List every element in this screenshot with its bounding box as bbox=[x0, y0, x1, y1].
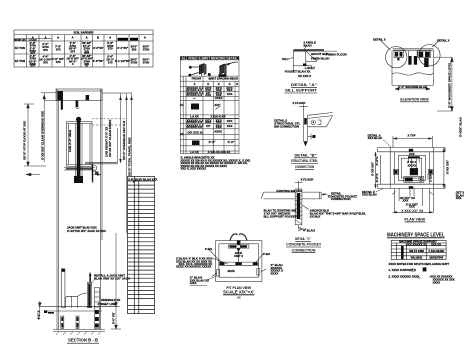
pit leader note bbox=[91, 273, 131, 284]
svg-text:XXX: XXX bbox=[456, 196, 462, 200]
svg-text:DETAIL X: DETAIL X bbox=[373, 37, 386, 41]
plan view title bbox=[404, 218, 425, 222]
svg-text:X TYP: X TYP bbox=[407, 133, 415, 137]
data row smudges (lower) bbox=[180, 103, 233, 136]
svg-text:CONNECTION: CONNECTION bbox=[331, 197, 350, 201]
plan bottom dims text bbox=[400, 196, 425, 213]
svg-text:XXX: XXX bbox=[409, 152, 415, 156]
pit floor bbox=[53, 329, 105, 331]
overhead cap beam bbox=[56, 89, 102, 101]
center vertical line bbox=[238, 248, 240, 262]
detail A annotations bbox=[282, 41, 348, 79]
svg-text:CONNECTION: CONNECTION bbox=[292, 248, 316, 252]
svg-text:CONNECTION: CONNECTION bbox=[295, 165, 314, 169]
svg-text:P-BO: P-BO bbox=[205, 247, 213, 251]
svg-text:X'-XXX" BLAH: X'-XXX" BLAH bbox=[459, 117, 463, 137]
svg-text:UNIT 2: UNIT 2 bbox=[234, 254, 243, 258]
top dimension bbox=[393, 138, 432, 140]
svg-text:3'-1"30": 3'-1"30" bbox=[117, 46, 128, 50]
svg-text:CONCRETE POCKET: CONCRETE POCKET bbox=[286, 243, 322, 247]
pit buffers and ladder bbox=[61, 288, 100, 329]
svg-text:ELEVATION VIEW: ELEVATION VIEW bbox=[400, 97, 428, 102]
middle buffer beam bbox=[219, 261, 259, 263]
bracket sketch (right) bbox=[219, 62, 238, 77]
diagonal grout wedge bbox=[306, 51, 317, 61]
svg-text:CAB HEIGHT X'-X" XX: CAB HEIGHT X'-X" XX bbox=[105, 127, 109, 157]
left beam bbox=[264, 191, 296, 193]
svg-text:BLL SUPPORT POCKET: BLL SUPPORT POCKET bbox=[264, 214, 297, 218]
column (vertical member) bbox=[302, 115, 304, 141]
pit plan title bbox=[223, 286, 255, 300]
svg-text:A: A bbox=[44, 35, 46, 39]
svg-text:XX'-X" OVERHEAD ABV FLR: XX'-X" OVERHEAD ABV FLR bbox=[122, 120, 126, 160]
svg-text:XX XXX X: XX XXX X bbox=[298, 74, 311, 78]
DETAIL C : concrete pocket connection bbox=[261, 181, 321, 233]
svg-text:5'-0" PIT: 5'-0" PIT bbox=[112, 312, 116, 324]
detail C left note bbox=[264, 209, 297, 219]
anchor leader bbox=[302, 205, 309, 210]
svg-text:/X=XXX X.X: /X=XXX X.X bbox=[187, 125, 203, 129]
svg-text:X'-XX"/XX X/X" JACK XX XXX: X'-XX"/XX X/X" JACK XX XXX bbox=[67, 229, 106, 233]
bottom guides bbox=[217, 270, 220, 277]
svg-text:EXISTING BM XXX: EXISTING BM XXX bbox=[276, 189, 301, 193]
svg-text:X'-X" MACHINERY SPACE LEVEL: X'-X" MACHINERY SPACE LEVEL bbox=[447, 62, 451, 108]
svg-text:PLAN VIEW: PLAN VIEW bbox=[404, 218, 425, 222]
svg-text:A: A bbox=[109, 35, 111, 39]
top tie line from cap to right dims bbox=[102, 93, 132, 233]
data row smudges (upper) bbox=[187, 86, 233, 100]
beam bbox=[308, 113, 333, 116]
bottom angle marks bbox=[305, 66, 312, 69]
svg-text:B: B bbox=[97, 35, 99, 39]
hoistway wall bands bbox=[378, 147, 446, 149]
pit machinery: jack cylinder bbox=[87, 272, 91, 308]
right pit dimension bbox=[111, 233, 121, 329]
soil table data row 2 bbox=[15, 54, 150, 68]
svg-text:3700: 3700 bbox=[143, 47, 150, 51]
svg-text:SOIL BARRIER: SOIL BARRIER bbox=[74, 31, 94, 35]
bottom-most dim line bbox=[393, 211, 434, 213]
svg-text:A: A bbox=[72, 35, 74, 39]
svg-text:4'-0" X: 4'-0" X bbox=[37, 310, 41, 319]
bottom dim bbox=[298, 225, 300, 230]
shaft left wall bbox=[56, 89, 58, 330]
soil parameters table (top-left) bbox=[14, 30, 153, 67]
column header smudges bbox=[192, 76, 238, 86]
svg-text:37: 37 bbox=[85, 64, 89, 68]
svg-text:DETAIL "C": DETAIL "C" bbox=[295, 237, 311, 241]
svg-text:370: 370 bbox=[108, 47, 113, 51]
svg-text:3700: 3700 bbox=[131, 60, 138, 64]
elevation title bbox=[400, 97, 429, 102]
svg-text:XX'-X" ATYP FLOOR HT XXX: XX'-X" ATYP FLOOR HT XXX bbox=[23, 121, 27, 160]
svg-text:XXX X. XXX XXXXX: XXX X. XXX XXXXX bbox=[181, 167, 207, 171]
svg-text:2'-6"30': 2'-6"30' bbox=[93, 46, 103, 50]
svg-text:XXX: XXX bbox=[227, 124, 233, 128]
svg-text:SECTION B - B: SECTION B - B bbox=[68, 338, 98, 343]
svg-text:X'-XX X/X": X'-XX X/X" bbox=[446, 159, 450, 174]
elevation bottom dimension bbox=[395, 88, 430, 91]
svg-text:370: 370 bbox=[108, 61, 113, 65]
svg-text:XXX: XXX bbox=[216, 125, 222, 129]
svg-text:ROW HD: ROW HD bbox=[14, 38, 26, 42]
platform bracket + detail arrow bbox=[91, 164, 102, 183]
svg-text:A: A bbox=[57, 35, 59, 39]
pit plan lower-left note bbox=[190, 276, 217, 286]
svg-text:370: 370 bbox=[70, 49, 75, 53]
SECTION B-B title bbox=[67, 338, 99, 344]
svg-text:BM CONNECTION: BM CONNECTION bbox=[274, 124, 299, 128]
svg-text:X X/X-XX-X/X-XX: X X/X-XX-X/X-XX bbox=[208, 150, 231, 154]
svg-text:XXXX: XXXX bbox=[215, 96, 223, 100]
svg-text:XX BLK: XX BLK bbox=[310, 215, 322, 219]
hatched pocket column bbox=[295, 189, 302, 225]
svg-text:FINISH BLAH: FINISH BLAH bbox=[311, 56, 329, 60]
svg-text:4" BLAH: 4" BLAH bbox=[303, 229, 315, 233]
svg-text:DETAIL "B": DETAIL "B" bbox=[295, 154, 317, 158]
bracket bracing detail table (middle) bbox=[180, 56, 239, 153]
left machine unit bbox=[394, 51, 403, 58]
bottom dim extensions bbox=[393, 188, 395, 212]
body sides bbox=[391, 50, 393, 85]
elevation detail callout circle (left) bbox=[381, 41, 407, 68]
pocket line bbox=[292, 66, 294, 72]
svg-text:DETAIL "A": DETAIL "A" bbox=[291, 83, 317, 87]
svg-text:XXX: XXX bbox=[227, 119, 233, 123]
DETAIL B : structural steel connection bbox=[299, 105, 333, 147]
svg-text:X'-XX X/X" CLEAR OVERHEAD XXX: X'-XX X/X" CLEAR OVERHEAD XXX bbox=[41, 111, 45, 160]
svg-text:XXX: XXX bbox=[227, 92, 233, 96]
machinery note 1 bbox=[389, 267, 427, 272]
svg-text:XXX BLAH: XXX BLAH bbox=[362, 193, 377, 197]
tall row marks bbox=[190, 103, 225, 119]
inner pit wall bbox=[219, 244, 259, 277]
outer pit wall bbox=[216, 241, 262, 282]
ELEVATION VIEW (top right) bbox=[392, 49, 433, 86]
svg-text:XXXX: XXXX bbox=[214, 130, 222, 134]
svg-text:XXX: XXX bbox=[417, 277, 422, 279]
right dim verticals bbox=[443, 148, 445, 189]
svg-text:X XXX'-XX" XX: X XXX'-XX" XX bbox=[401, 209, 424, 213]
svg-text:XXX: XXX bbox=[205, 93, 211, 97]
left pit dimension bbox=[38, 301, 41, 319]
svg-text:A: A bbox=[86, 35, 88, 39]
svg-text:XXX XX: XXX XX bbox=[431, 242, 441, 246]
svg-text:XX: XX bbox=[180, 132, 184, 136]
right rail bracket bbox=[428, 169, 433, 174]
svg-text:XX: XX bbox=[237, 296, 241, 300]
svg-text:POCKET BLAH XX: POCKET BLAH XX bbox=[285, 69, 311, 73]
svg-text:BLAH: BLAH bbox=[304, 43, 312, 47]
svg-text:CAB X'-X" HIGH: CAB X'-X" HIGH bbox=[68, 130, 72, 152]
svg-text:ALL FIXED & BRKT BRACING DETAI: ALL FIXED & BRKT BRACING DETAIL bbox=[182, 57, 238, 61]
svg-text:370: 370 bbox=[43, 61, 48, 65]
detail B left note bbox=[274, 119, 300, 129]
bolt below bbox=[308, 136, 314, 138]
left leader bbox=[288, 58, 293, 60]
svg-text:XX'-X" TOTAL TRAVEL RISE: XX'-X" TOTAL TRAVEL RISE bbox=[128, 137, 132, 176]
pit plan right note bbox=[271, 263, 283, 275]
plan bottom-left label bbox=[362, 189, 383, 197]
svg-text:FINISH FLOOR: FINISH FLOOR bbox=[326, 53, 347, 57]
street line bbox=[39, 306, 120, 311]
svg-text:X FLOOR: X FLOOR bbox=[293, 101, 307, 105]
center unit (hanging motor, U shape) bbox=[408, 56, 411, 65]
svg-text:3'-6"30": 3'-6"30" bbox=[93, 59, 104, 63]
machinery space table bbox=[391, 240, 446, 259]
clear-inside extension line bbox=[116, 128, 118, 162]
PLAN VIEW (right) bbox=[374, 136, 445, 214]
svg-text:370: 370 bbox=[30, 64, 35, 68]
plan bottom-right rotated label bbox=[456, 191, 465, 201]
svg-text:3700: 3700 bbox=[143, 60, 150, 64]
detail C callout note (far right) bbox=[322, 192, 357, 202]
svg-text:XX: XX bbox=[180, 103, 184, 107]
svg-text:XXX XX/XXX XX: XXX XX/XXX XX bbox=[406, 242, 427, 246]
svg-text:XXXX: XXXX bbox=[433, 280, 441, 284]
floor levels ladder table bbox=[128, 176, 155, 313]
right dimension arrowheads bbox=[119, 96, 133, 163]
svg-text:3/8,16/32: 3/8,16/32 bbox=[411, 256, 423, 260]
platform sill band extending right bbox=[85, 162, 118, 164]
svg-text:(XX XXX X): (XX XXX X) bbox=[188, 130, 203, 134]
svg-text:XXXX NOTES FOR SPLITS REPLACIN: XXXX NOTES FOR SPLITS REPLACING SUPT bbox=[389, 262, 450, 266]
pit machinery: power unit tank bbox=[66, 293, 88, 308]
svg-text:DETAIL X: DETAIL X bbox=[437, 39, 450, 43]
svg-text:REAR: REAR bbox=[230, 76, 238, 80]
center jack cluster bbox=[410, 168, 418, 175]
jack unit note text (mid shaft) bbox=[67, 226, 106, 234]
bottom slab bbox=[392, 84, 433, 86]
cylinder arc above (double dome) bbox=[230, 234, 238, 241]
svg-text:X/XX: X/XX bbox=[190, 281, 197, 285]
svg-text:370: 370 bbox=[43, 48, 48, 52]
svg-text:X/X": X/X" bbox=[214, 103, 221, 107]
svg-text:SILL: SILL bbox=[282, 57, 288, 61]
PIT PLAN VIEW bbox=[209, 234, 266, 282]
svg-text:16/32/7600: 16/32/7600 bbox=[429, 256, 443, 260]
pit machinery: plunger guide column bbox=[62, 269, 65, 308]
right beam bbox=[302, 192, 321, 199]
leader diagonals bbox=[209, 250, 221, 263]
svg-text:X'-X" MACHINE BLAH: X'-X" MACHINE BLAH bbox=[398, 85, 427, 89]
machine room shelf top line bbox=[393, 48, 434, 50]
svg-text:7-1/8,1/8,M0: 7-1/8,1/8,M0 bbox=[428, 249, 444, 253]
svg-text:X FL ELEV BLAH XXX: X FL ELEV BLAH XXX bbox=[128, 177, 157, 181]
svg-text:370: 370 bbox=[56, 47, 61, 51]
svg-text:300: 300 bbox=[132, 47, 137, 51]
dashed datum lines right of cab bbox=[92, 119, 127, 125]
plan top-left label bbox=[368, 133, 391, 147]
svg-text:XX': XX' bbox=[206, 124, 211, 128]
plan inside small texts bbox=[407, 152, 416, 167]
svg-text:X'-X": X'-X" bbox=[228, 140, 236, 144]
svg-text:A: A bbox=[144, 35, 146, 39]
svg-text:JACK: JACK bbox=[227, 269, 235, 273]
soil table data row 1 bbox=[15, 41, 150, 55]
svg-text:3'-1 1/2"30": 3'-1 1/2"30" bbox=[115, 59, 131, 63]
detail C right note bbox=[310, 209, 366, 219]
svg-text:SCALE X/X"=X': SCALE X/X"=X' bbox=[223, 290, 254, 295]
svg-text:X'-X"X: X'-X"X bbox=[375, 174, 379, 183]
pit plan left note block bbox=[176, 257, 212, 269]
leader to 2-angle note bbox=[303, 45, 307, 51]
cab / car enclosure bbox=[64, 122, 95, 171]
shaft right wall bbox=[100, 89, 102, 330]
svg-text:X'-X": X'-X" bbox=[209, 140, 217, 144]
center top tick bbox=[409, 149, 413, 152]
elevation detail callout circle (right) bbox=[419, 42, 440, 66]
finish floor line bbox=[293, 49, 324, 51]
top buffer channel bbox=[229, 245, 249, 248]
bracket sketch (left) bbox=[189, 64, 211, 77]
center channel verticals bbox=[411, 159, 413, 176]
svg-text:—: — bbox=[193, 96, 196, 100]
sidewalk arrow blob bbox=[44, 310, 47, 313]
svg-text:5/8,73 1/8M: 5/8,73 1/8M bbox=[409, 249, 424, 253]
svg-text:SILL SUPPORT: SILL SUPPORT bbox=[285, 89, 318, 93]
svg-text:FRONT: FRONT bbox=[192, 76, 202, 80]
floor tick bbox=[298, 181, 300, 192]
corner leader ticks bbox=[392, 191, 395, 194]
svg-text:370: 370 bbox=[56, 60, 61, 64]
machinery note 2 bbox=[389, 274, 455, 284]
svg-text:XXX BLAH: XXX BLAH bbox=[368, 136, 383, 140]
wavy break line bbox=[392, 73, 433, 75]
floor tick above bbox=[302, 105, 304, 116]
SECTION B-B : hoistway section (left) bbox=[53, 89, 105, 335]
svg-text:XXXX: XXXX bbox=[271, 271, 279, 275]
left dimension line (near) bbox=[26, 93, 57, 176]
inner boxes bbox=[394, 152, 429, 184]
hydraulic piston bbox=[74, 117, 83, 183]
svg-text:STRUCTURAL STEEL: STRUCTURAL STEEL bbox=[291, 159, 318, 163]
right machine unit bbox=[418, 51, 431, 58]
svg-text:BLAH UNIT XX X/X" JACK: BLAH UNIT XX X/X" JACK bbox=[94, 276, 131, 280]
svg-text:P-BO: P-BO bbox=[263, 252, 271, 256]
left rail bracket bbox=[393, 169, 398, 174]
svg-text:BRKT SPACING: BRKT SPACING bbox=[208, 76, 229, 80]
svg-text:370: 370 bbox=[84, 49, 89, 53]
machinery table texts bbox=[399, 240, 444, 260]
detail B title bbox=[291, 154, 319, 170]
notes below bracket table bbox=[181, 156, 251, 171]
svg-text:2. XXXX XXXXXX XXXX: 2. XXXX XXXXXX XXXX bbox=[389, 274, 420, 278]
pit plan labels inside bbox=[227, 251, 243, 273]
MACHINERY SPACE LEVEL title bbox=[387, 232, 445, 238]
svg-text:XX TON: XX TON bbox=[15, 59, 25, 63]
svg-text:XX TON: XX TON bbox=[15, 46, 25, 50]
svg-text:STREET LINE: STREET LINE bbox=[98, 302, 116, 306]
svg-text:X'-X"X: X'-X"X bbox=[375, 157, 379, 166]
svg-text:XXXX XX-XXXXXX XXXXX: XXXX XX-XXXXXX XXXXX bbox=[176, 264, 211, 268]
svg-text:X FLOOR: X FLOOR bbox=[301, 178, 315, 182]
DETAIL A : sill support bbox=[288, 45, 337, 72]
hoistway box sides bbox=[389, 148, 391, 189]
svg-text:X: X bbox=[236, 82, 238, 86]
detail C title bbox=[286, 237, 322, 253]
soil table header letters bbox=[14, 35, 146, 42]
detail A title bbox=[284, 83, 317, 93]
svg-text:X X/X: X X/X bbox=[429, 175, 433, 182]
machinery space level vertical dimension (right edge) bbox=[434, 57, 453, 111]
sill box bbox=[293, 51, 305, 66]
tall row 2 marks bbox=[190, 140, 235, 154]
left dim verticals bbox=[375, 152, 377, 189]
goalpost over jack bbox=[408, 156, 420, 158]
svg-text:LA XX: LA XX bbox=[190, 150, 198, 154]
left dimension line (far) bbox=[24, 104, 46, 166]
svg-text:XXX: XXX bbox=[411, 271, 416, 273]
svg-text:X'-XX X/X": X'-XX X/X" bbox=[371, 161, 375, 176]
svg-text:XX-XX: XX-XX bbox=[407, 163, 416, 167]
